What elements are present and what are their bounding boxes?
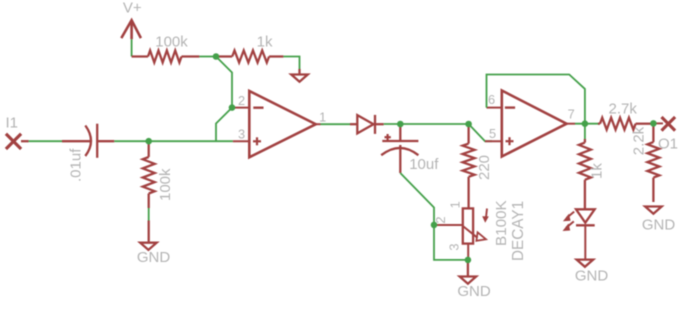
- ground LED: [575, 260, 609, 285]
- svg-text:O1: O1: [658, 135, 678, 152]
- resistor 100k top: [132, 34, 200, 63]
- wire 100k to junction: [199, 56, 214, 58]
- junction pot pin3 node: [465, 257, 472, 264]
- junction output node: [650, 120, 657, 127]
- svg-text:1k: 1k: [257, 34, 273, 51]
- svg-text:B100K: B100K: [493, 200, 510, 246]
- wire feedback loop: [487, 75, 585, 124]
- label 2.2k: [631, 126, 648, 155]
- wire 220 node to pin5: [469, 124, 492, 141]
- wire cap to op-amp pin3: [114, 140, 233, 142]
- junction wiper node: [431, 222, 438, 229]
- wire junction to pin2: [216, 57, 232, 108]
- svg-text:2: 2: [238, 93, 245, 108]
- svg-text:2.7k: 2.7k: [609, 101, 638, 118]
- svg-text:100k: 100k: [157, 168, 174, 201]
- svg-text:5: 5: [489, 126, 496, 141]
- diode D1: [350, 115, 384, 134]
- wire out node to 1k: [584, 124, 586, 139]
- LED D2: [563, 209, 595, 231]
- wire wiper node to pot pin3: [434, 225, 468, 260]
- connector O1: [655, 117, 678, 152]
- resistor 2.7k: [598, 101, 651, 130]
- wire op2 output: [575, 123, 600, 125]
- svg-text:1: 1: [319, 110, 326, 125]
- svg-text:100k: 100k: [155, 34, 188, 51]
- svg-text:6: 6: [488, 92, 495, 107]
- junction input bias node: [145, 138, 152, 145]
- svg-text:2.2k: 2.2k: [631, 126, 648, 155]
- svg-text:3: 3: [238, 127, 245, 142]
- resistor 1k top: [218, 34, 283, 63]
- junction 220 pin5 node: [465, 121, 472, 128]
- wire 1k to ground: [283, 57, 299, 70]
- svg-text:GND: GND: [575, 268, 609, 285]
- wire LED to ground: [584, 225, 586, 259]
- wire diode to 220 node: [384, 123, 469, 125]
- svg-text:V+: V+: [123, 0, 142, 17]
- wire 100k to ground: [148, 208, 150, 221]
- resistor 2.2k: [647, 126, 659, 202]
- junction top rail node: [213, 53, 220, 60]
- junction cap 10uf node: [397, 121, 404, 128]
- wire op1 output: [321, 123, 351, 125]
- capacitor 10uf: [381, 124, 439, 173]
- svg-text:GND: GND: [457, 283, 491, 300]
- capacitor .01uf: [62, 124, 114, 182]
- svg-text:3: 3: [447, 243, 462, 250]
- wire V+ to 100k: [131, 39, 133, 56]
- resistor 220: [463, 124, 493, 208]
- ground pot: [457, 260, 491, 300]
- ground input bias: [137, 221, 171, 267]
- svg-text:.01uf: .01uf: [68, 148, 85, 182]
- op-amp U1B: [485, 91, 575, 157]
- supply V+ symbol: [121, 0, 142, 39]
- ground 2.2k: [642, 207, 676, 234]
- wire I1 to cap: [29, 140, 62, 142]
- svg-text:I1: I1: [5, 115, 18, 132]
- svg-text:GND: GND: [642, 217, 676, 234]
- ground top 1k: [291, 69, 308, 82]
- svg-text:DECAY1: DECAY1: [510, 201, 527, 261]
- op-amp U1A: [232, 91, 326, 157]
- svg-text:1k: 1k: [589, 163, 606, 179]
- junction op2 output node: [582, 120, 589, 127]
- wire cap to pot wiper: [400, 173, 434, 225]
- svg-text:10uf: 10uf: [409, 156, 439, 173]
- svg-text:7: 7: [568, 107, 575, 122]
- resistor 1k LED: [579, 139, 606, 209]
- svg-text:1: 1: [448, 201, 463, 208]
- junction pin2 node: [229, 104, 236, 111]
- connector I1: [5, 115, 28, 150]
- wire pin2 node to input line: [216, 108, 232, 142]
- svg-text:220: 220: [476, 155, 493, 180]
- svg-text:GND: GND: [137, 249, 171, 266]
- potentiometer DECAY1 B100K: [433, 200, 527, 261]
- resistor 100k input bias: [143, 143, 174, 208]
